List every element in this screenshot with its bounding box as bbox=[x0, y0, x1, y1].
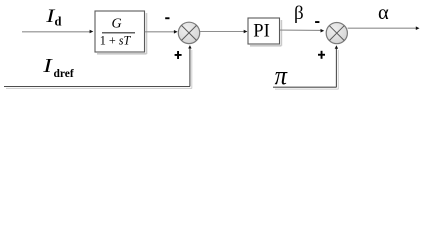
arrowhead into summer 2 bbox=[321, 29, 325, 33]
plus sign at summer 2 bbox=[318, 54, 325, 56]
wire: output alpha bbox=[348, 27, 416, 29]
arrowhead output bbox=[416, 26, 420, 30]
block PI shadow bbox=[280, 20, 282, 46]
arrowhead up into summer 2 bbox=[335, 45, 338, 48]
plus sign at summer 1 bbox=[175, 54, 182, 56]
svg-text:d: d bbox=[55, 15, 62, 29]
svg-text:α: α bbox=[378, 2, 389, 24]
block PI bbox=[248, 18, 280, 44]
svg-text:1 + sT: 1 + sT bbox=[100, 33, 132, 47]
arrowhead into G block bbox=[90, 30, 94, 34]
minus sign at summer 2 bbox=[315, 21, 319, 23]
wire: PI to summer 2 bbox=[280, 29, 321, 31]
wire: input Id to G block bbox=[22, 31, 91, 33]
svg-text:β: β bbox=[294, 3, 304, 24]
svg-text:G: G bbox=[112, 17, 122, 32]
fraction bar bbox=[102, 32, 135, 34]
minus sign at summer 1 bbox=[165, 17, 169, 19]
block G/(1+sT) bbox=[95, 11, 145, 52]
arrowhead up into summer 1 bbox=[188, 45, 191, 48]
summing junction 2 bbox=[326, 22, 347, 43]
block G/(1+sT) shadow bbox=[146, 13, 148, 54]
wire: G block to summer 1 bbox=[145, 31, 175, 33]
svg-text:dref: dref bbox=[54, 68, 74, 80]
svg-text:PI: PI bbox=[253, 21, 269, 41]
arrowhead into summer 1 bbox=[174, 30, 178, 34]
wire: pi feedback (bottom right) bbox=[275, 88, 339, 90]
wire: summer 1 to PI bbox=[200, 31, 244, 33]
svg-text:π: π bbox=[275, 62, 289, 91]
summing junction 1 bbox=[178, 22, 199, 43]
arrowhead into PI bbox=[244, 30, 248, 34]
wire: Idref feedback (bottom left) bbox=[6, 87, 192, 89]
svg-text:I: I bbox=[42, 55, 53, 77]
